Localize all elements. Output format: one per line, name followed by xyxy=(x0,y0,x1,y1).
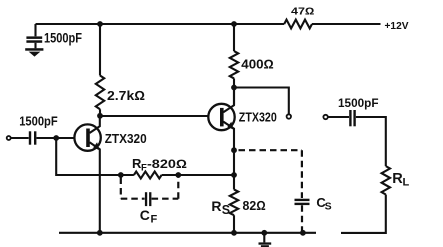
svg-text:-820Ω: -820Ω xyxy=(147,157,187,171)
svg-text:2.7kΩ: 2.7kΩ xyxy=(107,88,145,103)
svg-text:R: R xyxy=(211,198,221,214)
svg-text:S: S xyxy=(325,200,332,212)
svg-text:L: L xyxy=(403,176,410,188)
svg-text:1500pF: 1500pF xyxy=(44,30,82,46)
svg-text:1500pF: 1500pF xyxy=(338,96,379,110)
svg-text:ZTX320: ZTX320 xyxy=(239,110,277,124)
svg-text:1500pF: 1500pF xyxy=(19,114,58,129)
svg-text:S: S xyxy=(222,203,230,217)
svg-text:C: C xyxy=(140,207,150,223)
svg-text:F: F xyxy=(151,214,158,226)
svg-text:82Ω: 82Ω xyxy=(243,198,266,213)
svg-text:+12V: +12V xyxy=(385,20,409,32)
svg-text:47Ω: 47Ω xyxy=(291,7,315,18)
svg-text:400Ω: 400Ω xyxy=(241,57,273,71)
svg-text:ZTX320: ZTX320 xyxy=(105,131,147,146)
